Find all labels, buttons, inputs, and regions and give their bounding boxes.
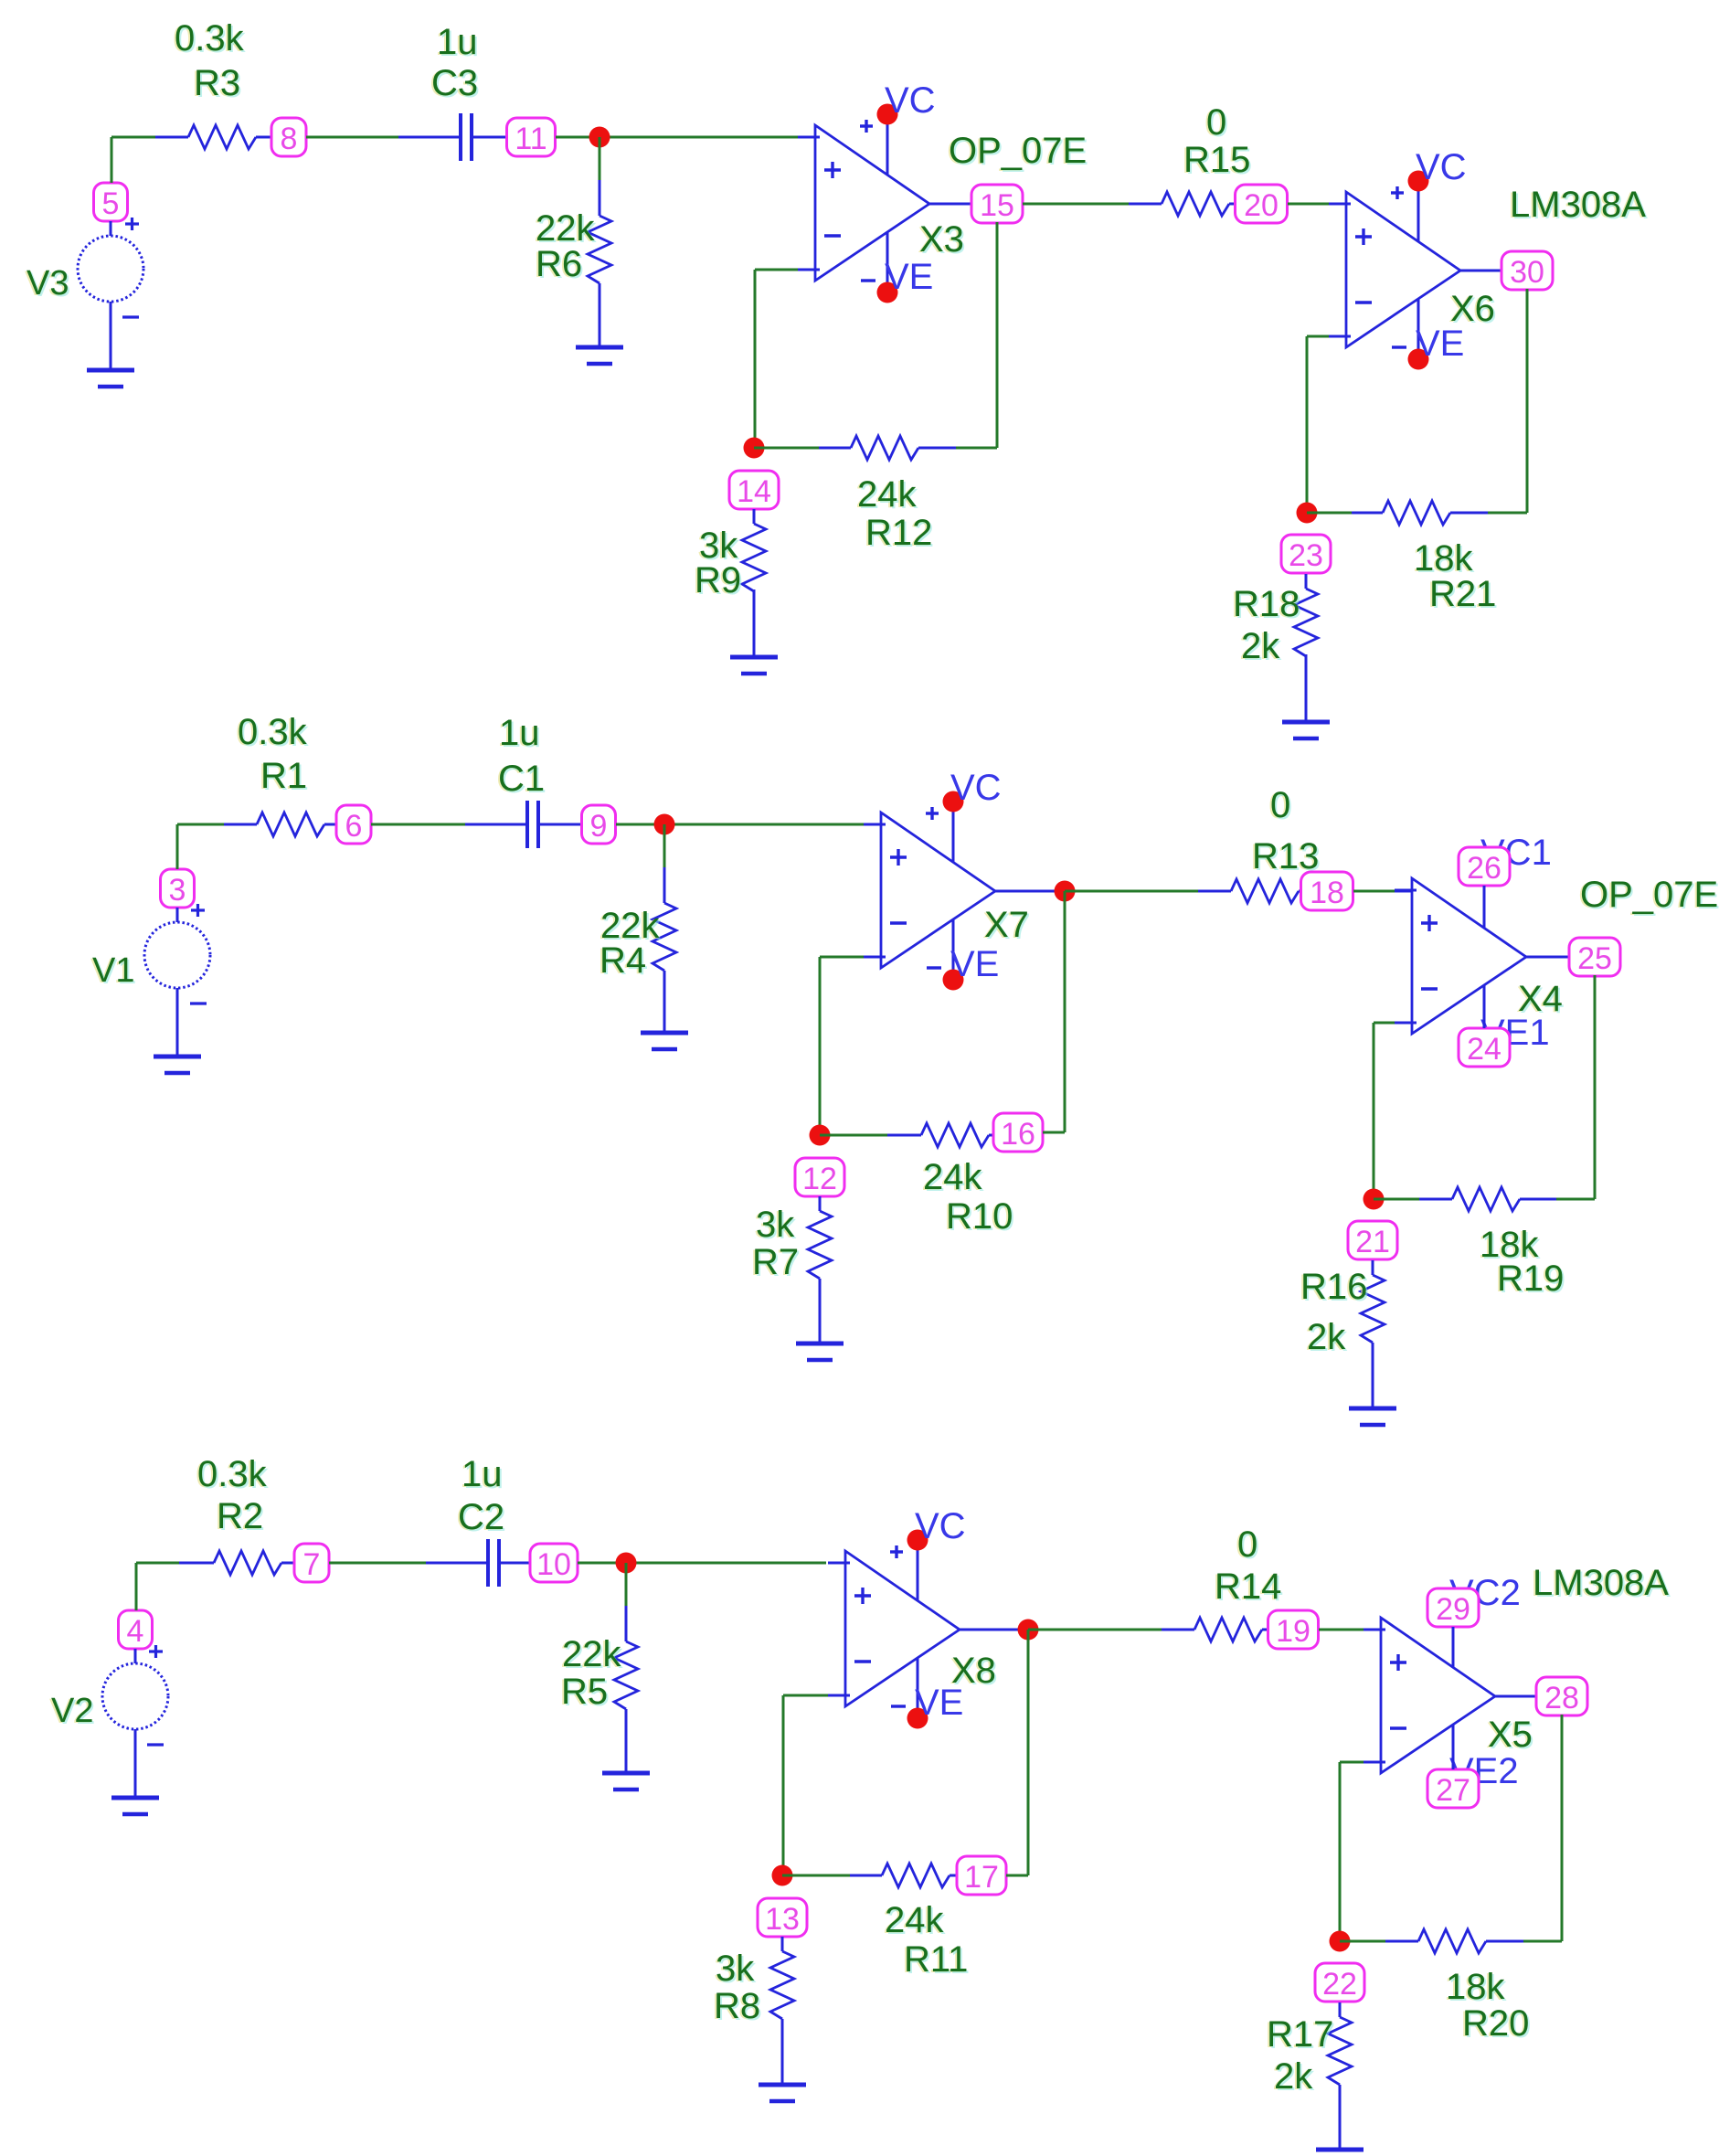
node 25 [1569, 938, 1620, 976]
junction (node 9 / R4 / X7+) [654, 814, 675, 835]
resistor R16 [1299, 1260, 1385, 1408]
node 17 [957, 1856, 1006, 1895]
power pin VE (X3) [861, 232, 933, 303]
svg-text:0.3k: 0.3k [238, 712, 308, 752]
ground (V1) [154, 1057, 201, 1073]
wire [782, 1875, 850, 1877]
ground (R4) [641, 1033, 688, 1049]
wire [1523, 1940, 1562, 1943]
wire [599, 137, 601, 180]
label LM308A (X5) [1531, 1563, 1671, 1605]
resistor R3 [155, 18, 271, 149]
label X6 [1448, 289, 1497, 331]
svg-text:28: 28 [1544, 1681, 1579, 1715]
node 26 [1459, 847, 1510, 928]
node 22 [1315, 1963, 1364, 2002]
power pin VE (X6) [1392, 299, 1464, 370]
svg-text:0: 0 [1237, 1524, 1257, 1565]
svg-text:R10: R10 [946, 1196, 1013, 1237]
junction (node 23) [1297, 503, 1318, 524]
node 12 [795, 1158, 844, 1196]
ground (R5) [602, 1773, 650, 1790]
wire [929, 203, 971, 206]
svg-text:25: 25 [1577, 941, 1612, 976]
node 5 [94, 183, 128, 221]
wire (X5 - input) [1340, 1761, 1381, 1764]
svg-text:4: 4 [127, 1614, 144, 1649]
wire [306, 136, 398, 139]
svg-text:0.3k: 0.3k [175, 18, 245, 58]
wire [754, 447, 819, 450]
wire [329, 1562, 426, 1565]
resistor R21 [1352, 501, 1498, 616]
svg-text:23: 23 [1289, 538, 1323, 573]
node 28 [1536, 1677, 1587, 1715]
svg-text:17: 17 [964, 1860, 999, 1895]
op-amp X4 [1395, 878, 1526, 1034]
wire [798, 136, 819, 138]
svg-text:9: 9 [590, 809, 608, 844]
ground (R7) [796, 1344, 844, 1360]
label X8 [950, 1651, 998, 1693]
wire [1028, 1629, 1162, 1631]
voltage source V2 [49, 1645, 168, 1798]
resistor R5 [559, 1606, 638, 1773]
resistor R10 [887, 1123, 1014, 1238]
svg-text:VC: VC [915, 1506, 966, 1546]
svg-text:3k: 3k [756, 1205, 795, 1245]
power pin VC (X6) [1391, 147, 1467, 241]
svg-text:0: 0 [1206, 102, 1226, 143]
junction (X7 output) [1055, 881, 1076, 902]
wire [960, 1629, 1028, 1631]
wire [864, 823, 881, 825]
node 29 [1427, 1588, 1479, 1667]
svg-text:X5: X5 [1488, 1715, 1533, 1755]
svg-text:R13: R13 [1252, 836, 1319, 876]
svg-text:18: 18 [1310, 876, 1344, 910]
svg-text:X7: X7 [984, 905, 1029, 945]
svg-text:LM308A: LM308A [1510, 185, 1646, 225]
voltage source V1 [90, 904, 210, 1057]
svg-text:20: 20 [1244, 188, 1279, 223]
resistor R6 [534, 180, 611, 347]
svg-text:0.3k: 0.3k [197, 1454, 268, 1494]
capacitor C2 [426, 1454, 532, 1587]
ground (R16) [1349, 1408, 1396, 1425]
svg-text:V2: V2 [51, 1692, 93, 1730]
svg-text:VE: VE [950, 944, 999, 984]
label X3 [918, 219, 966, 261]
svg-text:R8: R8 [714, 1986, 760, 2026]
label VC2 (X5) [1449, 1573, 1521, 1613]
ground (R18) [1282, 722, 1330, 738]
svg-text:R2: R2 [217, 1496, 263, 1536]
power pin VC (X8) [890, 1506, 966, 1600]
svg-text:LM308A: LM308A [1533, 1563, 1669, 1603]
svg-text:R11: R11 [904, 1939, 968, 1980]
resistor R20 [1385, 1929, 1531, 2045]
wire [1594, 975, 1597, 1199]
svg-text:18k: 18k [1446, 1967, 1505, 2007]
wire (X7 - input) [820, 956, 881, 959]
svg-text:R19: R19 [1497, 1259, 1564, 1299]
capacitor C3 [398, 22, 507, 161]
node 4 [119, 1610, 153, 1649]
svg-text:VC: VC [885, 80, 936, 121]
junction (node 14) [744, 438, 765, 459]
wire [1340, 1940, 1385, 1943]
svg-text:OP_07E: OP_07E [1580, 875, 1718, 915]
label LM308A (X6) [1508, 185, 1648, 227]
ground (R9) [730, 657, 778, 674]
wire [111, 136, 155, 139]
wire [625, 1563, 628, 1606]
svg-text:1u: 1u [437, 22, 478, 62]
svg-text:X8: X8 [951, 1651, 996, 1691]
svg-text:R9: R9 [695, 560, 741, 600]
svg-text:R1: R1 [260, 756, 307, 796]
node 21 [1348, 1221, 1397, 1259]
svg-text:VC: VC [1416, 147, 1467, 187]
wire [1495, 1695, 1536, 1698]
node 13 [758, 1898, 807, 1937]
svg-text:6: 6 [345, 809, 363, 844]
svg-text:8: 8 [281, 122, 298, 156]
svg-text:19: 19 [1276, 1614, 1310, 1649]
capacitor C1 [465, 713, 582, 848]
node 19 [1268, 1610, 1319, 1649]
svg-text:2k: 2k [1307, 1317, 1346, 1357]
node 24 [1459, 985, 1510, 1067]
resistor R15 [1129, 102, 1252, 216]
node 14 [729, 471, 779, 509]
op-amp X6 [1329, 192, 1460, 347]
wire [371, 823, 465, 826]
svg-text:VC: VC [950, 768, 1002, 808]
node 30 [1501, 251, 1553, 290]
wire [956, 447, 997, 450]
resistor R7 [750, 1196, 832, 1344]
wire [1006, 1875, 1028, 1877]
svg-text:1u: 1u [462, 1454, 503, 1494]
wire [826, 1562, 845, 1564]
wire [1526, 289, 1529, 513]
svg-text:5: 5 [102, 186, 120, 221]
node 10 [530, 1544, 578, 1582]
wire [1043, 1131, 1065, 1134]
op-amp X5 [1364, 1618, 1495, 1773]
wire [1353, 890, 1412, 893]
junction (node 12) [810, 1125, 831, 1146]
svg-text:24k: 24k [857, 474, 917, 515]
svg-text:21: 21 [1355, 1225, 1390, 1259]
svg-text:3k: 3k [716, 1949, 755, 1989]
label X5 [1486, 1715, 1534, 1757]
node 9 [582, 805, 616, 844]
label VE1 (X4) [1480, 1013, 1550, 1053]
svg-text:R18: R18 [1233, 584, 1300, 624]
ground (R8) [759, 2085, 806, 2101]
wire [1065, 890, 1198, 893]
wire [177, 823, 224, 826]
wire [135, 1563, 138, 1610]
power pin VC (X7) [926, 768, 1002, 862]
power pin VE (X7) [927, 919, 999, 991]
wire [1307, 512, 1352, 515]
svg-text:R6: R6 [536, 244, 582, 284]
svg-text:VE: VE [885, 257, 933, 297]
op-amp X3 [798, 125, 929, 281]
wire [995, 890, 1065, 893]
svg-text:1u: 1u [499, 713, 540, 753]
wire (X8 - input) [783, 1694, 845, 1697]
wire [1319, 1629, 1381, 1631]
svg-text:13: 13 [765, 1902, 800, 1937]
wire [136, 1562, 179, 1565]
label VE2 (X5) [1449, 1751, 1519, 1791]
wire (X6 - input) [1307, 335, 1346, 338]
svg-text:0: 0 [1270, 785, 1290, 825]
svg-text:18k: 18k [1414, 538, 1473, 579]
label OP_07E (X4) [1578, 875, 1719, 917]
wire [754, 270, 757, 448]
wire [1556, 1198, 1595, 1201]
wire [1526, 956, 1569, 959]
svg-text:R16: R16 [1300, 1267, 1367, 1307]
node 3 [161, 869, 195, 908]
wire [1373, 1023, 1375, 1199]
svg-text:R12: R12 [865, 513, 932, 553]
wire [111, 137, 113, 183]
svg-text:R21: R21 [1429, 574, 1496, 614]
svg-text:R5: R5 [561, 1672, 608, 1712]
svg-text:27: 27 [1436, 1773, 1470, 1808]
svg-text:X6: X6 [1450, 289, 1495, 329]
junction (node 13) [772, 1865, 793, 1886]
node 20 [1236, 185, 1288, 223]
wire [1488, 512, 1527, 515]
wire [1027, 1630, 1030, 1875]
wire [616, 823, 864, 826]
svg-text:3: 3 [169, 873, 186, 908]
svg-text:R7: R7 [752, 1242, 799, 1282]
ground (R17) [1316, 2150, 1364, 2156]
svg-text:22k: 22k [536, 208, 595, 249]
wire [1374, 1198, 1419, 1201]
wire (X3 - input) [755, 269, 815, 271]
svg-text:24k: 24k [923, 1157, 982, 1197]
wire [1460, 270, 1501, 272]
resistor R9 [693, 509, 766, 657]
svg-text:C2: C2 [458, 1497, 504, 1537]
node 6 [336, 805, 371, 844]
resistor R12 [819, 436, 956, 555]
svg-text:22k: 22k [562, 1634, 621, 1674]
svg-text:2k: 2k [1274, 2056, 1313, 2097]
node 7 [294, 1544, 329, 1582]
junction (node 10 / R5 / X8+) [616, 1553, 637, 1574]
wire [556, 136, 798, 139]
ground (R6) [576, 347, 623, 364]
wire [819, 957, 822, 1135]
wire [1064, 891, 1066, 1132]
svg-text:11: 11 [515, 122, 546, 156]
label VC1 (X4) [1480, 833, 1552, 873]
svg-text:C1: C1 [498, 759, 545, 799]
svg-text:24k: 24k [885, 1900, 944, 1940]
node 16 [993, 1113, 1043, 1152]
wire [1561, 1715, 1564, 1941]
svg-text:X3: X3 [919, 219, 964, 260]
junction (node 22) [1330, 1931, 1351, 1952]
label X4 [1516, 979, 1565, 1021]
svg-text:26: 26 [1467, 851, 1501, 886]
wire (X4 - input) [1374, 1022, 1412, 1025]
wire [782, 1695, 785, 1875]
svg-text:R3: R3 [194, 63, 240, 103]
node 23 [1281, 535, 1331, 573]
node 15 [971, 185, 1023, 223]
svg-text:R20: R20 [1462, 2003, 1529, 2044]
resistor R8 [712, 1937, 794, 2085]
svg-text:R14: R14 [1215, 1567, 1281, 1607]
wire [1023, 203, 1129, 206]
node 18 [1301, 872, 1353, 910]
junction (X8 output) [1018, 1620, 1039, 1641]
wire [1306, 336, 1309, 513]
junction (node 11 / R6 / X3+) [589, 127, 610, 148]
op-amp X8 [828, 1551, 960, 1706]
resistor R1 [224, 712, 336, 836]
wire [663, 824, 666, 867]
resistor R13 [1198, 785, 1321, 903]
svg-text:R17: R17 [1267, 2014, 1333, 2055]
svg-text:V3: V3 [27, 264, 69, 303]
svg-text:22: 22 [1322, 1967, 1357, 2002]
wire [996, 222, 999, 448]
label OP_07E (X3) [947, 131, 1088, 173]
resistor R4 [598, 867, 676, 1033]
svg-text:24: 24 [1467, 1032, 1501, 1067]
label X7 [982, 905, 1031, 947]
svg-text:R4: R4 [600, 940, 646, 981]
svg-text:29: 29 [1436, 1592, 1470, 1627]
svg-text:15: 15 [980, 188, 1014, 223]
svg-text:C3: C3 [431, 63, 478, 103]
node 27 [1427, 1725, 1479, 1808]
resistor R11 [850, 1864, 970, 1981]
node 11 [507, 118, 556, 156]
svg-text:R15: R15 [1183, 140, 1250, 180]
wire [1339, 1762, 1342, 1941]
ground (V2) [111, 1798, 159, 1814]
resistor R17 [1265, 2002, 1352, 2150]
wire [176, 824, 179, 869]
power pin VE (X8) [891, 1658, 963, 1729]
wire [578, 1562, 826, 1565]
junction (node 21) [1364, 1189, 1385, 1210]
voltage source V3 [25, 218, 143, 370]
wire [820, 1134, 887, 1137]
resistor R18 [1231, 574, 1318, 722]
svg-text:12: 12 [802, 1162, 837, 1196]
svg-text:7: 7 [303, 1547, 321, 1582]
power pin VC (X3) [860, 80, 936, 175]
svg-text:14: 14 [737, 474, 771, 509]
resistor R19 [1419, 1187, 1565, 1301]
svg-text:OP_07E: OP_07E [949, 131, 1087, 171]
svg-text:16: 16 [1001, 1117, 1035, 1152]
svg-text:V1: V1 [92, 951, 134, 990]
resistor R2 [179, 1454, 294, 1575]
svg-text:X4: X4 [1518, 979, 1563, 1019]
svg-text:10: 10 [536, 1547, 571, 1582]
ground (V3) [87, 370, 134, 387]
resistor R14 [1162, 1524, 1283, 1641]
node 8 [271, 118, 306, 156]
svg-text:30: 30 [1510, 255, 1544, 290]
wire [1288, 203, 1346, 206]
svg-text:2k: 2k [1241, 626, 1280, 666]
op-amp X7 [864, 812, 995, 968]
